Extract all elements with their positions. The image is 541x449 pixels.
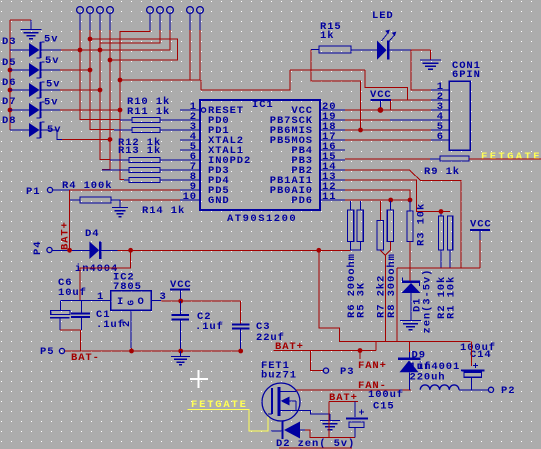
- op-amp IC1 AT90S1200: [180, 99, 345, 225]
- wire P1 to pin9: [53, 189, 180, 191]
- resistor R5: [355, 201, 367, 318]
- zener diode D7: [2, 96, 58, 118]
- zener diode D5: [2, 55, 59, 78]
- wire caps to BAT-: [60, 330, 80, 351]
- wire BAT- rail: [65, 351, 241, 364]
- wire bottom edge: [279, 447, 352, 449]
- label BAT+ fan: [275, 341, 304, 353]
- svg-text:AT90S1200: AT90S1200: [227, 213, 297, 225]
- svg-text:I: I: [117, 296, 124, 308]
- pin P3: [323, 366, 354, 378]
- resistor R13: [102, 145, 180, 173]
- wire D6 cathode: [41, 88, 102, 93]
- wire D5 cathode: [41, 68, 92, 73]
- svg-text:BAT+: BAT+: [60, 221, 72, 250]
- svg-text:5v: 5v: [45, 55, 59, 67]
- resistor R4: [62, 180, 120, 203]
- wire D8 cathode: [41, 130, 112, 142]
- wire col200 long run: [120, 30, 201, 90]
- svg-text:5v: 5v: [46, 79, 60, 91]
- wire pin3 rail: [161, 301, 241, 324]
- svg-text:D9: D9: [412, 350, 426, 362]
- wire to CON2: [391, 100, 431, 110]
- ground below R4: [112, 200, 128, 217]
- svg-text:1: 1: [97, 291, 104, 303]
- resistor R1: [446, 216, 458, 319]
- svg-text:VCC: VCC: [470, 219, 492, 231]
- ground FET source: [320, 421, 340, 430]
- header pin x=200: [197, 7, 204, 30]
- svg-text:buz71: buz71: [261, 370, 297, 382]
- wire D7 cathode: [41, 108, 122, 113]
- resistor R8: [386, 201, 398, 318]
- wire pin12 to R3: [345, 190, 410, 200]
- wire col190: [189, 30, 191, 80]
- ground near D3: [10, 20, 42, 39]
- capacitor C2: [172, 301, 224, 353]
- wire R6 R5 bottoms: [351, 242, 361, 251]
- resistor R3: [407, 201, 428, 246]
- wire col100 to R12: [100, 30, 110, 160]
- svg-text:10uf: 10uf: [58, 287, 87, 299]
- svg-text:1k: 1k: [320, 30, 334, 42]
- svg-text:P4: P4: [32, 241, 44, 255]
- svg-text:P3: P3: [340, 366, 354, 378]
- wire anode bus left: [8, 20, 13, 130]
- svg-text:5v: 5v: [44, 97, 58, 109]
- diode D9: [398, 341, 460, 390]
- power VCC left: [170, 279, 192, 303]
- svg-text:6PIN: 6PIN: [452, 69, 481, 81]
- header pin x=80: [77, 7, 84, 30]
- power VCC mid right: [470, 219, 492, 269]
- wire FETGATE yellow: [188, 410, 268, 432]
- wire matrix up jog: [201, 70, 290, 90]
- wire BAT+ down right: [319, 250, 471, 341]
- wire col110 to R13: [102, 30, 112, 170]
- svg-text:R1 10k: R1 10k: [446, 276, 458, 319]
- svg-text:GND: GND: [208, 195, 230, 207]
- wire col170 jog: [169, 30, 171, 50]
- ground top right: [420, 60, 441, 69]
- resistor R15: [311, 21, 351, 53]
- wire D2 anode: [305, 430, 355, 438]
- wire R4 to pin10: [120, 199, 180, 201]
- wire pin13 to R2 R1: [345, 180, 450, 214]
- ground below D1: [400, 321, 421, 330]
- svg-text:P2: P2: [501, 385, 515, 397]
- connector CON1 6PIN: [431, 60, 481, 150]
- svg-text:D7: D7: [2, 96, 16, 108]
- header pin x=160: [157, 7, 164, 30]
- wire D4 to 7805 in: [80, 250, 131, 300]
- wire pin18 to CON5: [345, 129, 431, 131]
- svg-text:G: G: [127, 299, 137, 305]
- pin P2: [488, 385, 515, 397]
- svg-text:FAN+: FAN+: [358, 360, 387, 372]
- pin P1: [26, 186, 53, 198]
- wire pin14 long: [345, 170, 461, 268]
- svg-text:R3 10k: R3 10k: [416, 203, 428, 246]
- svg-text:P5: P5: [40, 346, 54, 358]
- svg-text:P1: P1: [26, 186, 40, 198]
- svg-text:R14 1k: R14 1k: [142, 205, 185, 217]
- header pin x=100: [97, 7, 104, 30]
- label FETGATE left: [191, 399, 248, 411]
- svg-text:D5: D5: [2, 57, 16, 69]
- label FAN-: [358, 380, 387, 392]
- svg-text:in4004: in4004: [75, 263, 118, 275]
- inductor 220uh: [410, 372, 489, 390]
- wire 7805 gnd: [129, 348, 134, 353]
- wire FAN+: [359, 351, 361, 360]
- svg-text:BAT+: BAT+: [275, 341, 304, 353]
- svg-text:R8 300ohm: R8 300ohm: [386, 253, 398, 318]
- zener diode D3: [2, 34, 58, 59]
- wire to P3: [311, 351, 323, 371]
- label BAT+ vertical: [60, 221, 72, 250]
- wire FET source to ground: [296, 411, 330, 421]
- wire BAT+ riser: [69, 190, 71, 250]
- svg-text:C15: C15: [373, 401, 395, 413]
- header pin x=150: [147, 7, 154, 30]
- resistor R14: [124, 178, 185, 218]
- zener diode D8: [2, 115, 61, 138]
- wire pin19 to CON4: [345, 119, 431, 121]
- capacitor C6: [50, 277, 87, 330]
- svg-text:zen(3-5v): zen(3-5v): [422, 269, 434, 334]
- wire R15 left to pin18: [311, 50, 363, 133]
- svg-text:D8: D8: [2, 115, 16, 127]
- wire FET drain FAN-: [296, 390, 411, 392]
- wire BAT+ fan rail: [274, 341, 376, 353]
- wire pin20 VCC rail: [345, 109, 431, 111]
- wire long y70: [290, 70, 408, 100]
- resistor R12: [110, 137, 180, 163]
- label FAN+: [358, 360, 387, 372]
- svg-text:D6: D6: [2, 77, 16, 89]
- svg-text:220uh: 220uh: [410, 372, 446, 384]
- svg-text:IC1: IC1: [252, 99, 274, 111]
- svg-text:.1uf: .1uf: [96, 319, 125, 331]
- header pin x=190: [187, 7, 194, 30]
- origin cross: [190, 370, 208, 388]
- svg-text:10: 10: [183, 191, 197, 203]
- resistor R7: [376, 201, 388, 318]
- resistor R10: [120, 96, 180, 123]
- pin P5: [40, 346, 65, 358]
- wire col160 jog: [100, 30, 160, 43]
- wire pin11 rail: [345, 198, 412, 203]
- resistor R6: [346, 201, 358, 318]
- zener diode D6: [2, 77, 60, 98]
- svg-text:11: 11: [322, 191, 336, 203]
- svg-text:7805: 7805: [113, 281, 142, 293]
- wire D3 cathode: [41, 48, 170, 53]
- svg-text:R11 1k: R11 1k: [127, 106, 170, 118]
- diode D2: [271, 421, 355, 449]
- header pin x=170: [167, 7, 174, 30]
- header pin x=110: [107, 7, 114, 30]
- wire col90 to R11: [88, 30, 114, 130]
- label FETGATE right: [481, 151, 541, 163]
- svg-text:FETGATE: FETGATE: [481, 151, 541, 163]
- svg-text:D2 zen( 5v): D2 zen( 5v): [276, 438, 355, 449]
- wire R7 R8 bottoms: [380, 242, 390, 342]
- svg-text:R9 1k: R9 1k: [424, 166, 460, 178]
- svg-text:R5 3K: R5 3K: [355, 282, 367, 318]
- power VCC above IC: [370, 89, 392, 113]
- pin1 circle on IC1: [201, 108, 205, 112]
- ground on BAT-: [171, 351, 190, 365]
- wire to CON1 pin1: [411, 50, 431, 90]
- wire LED to ground: [411, 50, 430, 60]
- svg-text:O: O: [138, 296, 145, 308]
- svg-text:LED: LED: [372, 10, 394, 22]
- svg-text:5v: 5v: [44, 34, 58, 46]
- capacitor C1: [71, 301, 125, 331]
- zener diode D1: [402, 242, 434, 334]
- wire pin17 to CON6: [345, 139, 431, 141]
- capacitor C14: [460, 341, 496, 390]
- LED: [351, 10, 411, 60]
- resistor R2: [436, 212, 448, 320]
- diode D4: [53, 228, 119, 275]
- svg-text:D4: D4: [85, 228, 99, 240]
- svg-text:BAT+: BAT+: [329, 392, 358, 404]
- svg-text:PD6: PD6: [291, 195, 313, 207]
- svg-text:100uf: 100uf: [368, 389, 404, 401]
- resistor R11: [114, 106, 180, 133]
- svg-text:D3: D3: [2, 36, 16, 48]
- svg-text:BAT-: BAT-: [71, 352, 100, 364]
- op-amp IC2 7805: [61, 272, 167, 349]
- svg-text:.1uf: .1uf: [195, 321, 224, 333]
- pin P4: [32, 241, 52, 255]
- capacitor C3: [232, 321, 285, 353]
- svg-text:R4 100k: R4 100k: [62, 180, 112, 192]
- wire zigzag net: [90, 39, 178, 60]
- svg-text:R13 1k: R13 1k: [118, 145, 161, 157]
- svg-text:C14: C14: [470, 349, 492, 361]
- capacitor C15: [329, 389, 404, 438]
- transistor FET1 buz71: [261, 360, 300, 421]
- wire D4 rail: [118, 248, 351, 253]
- wire R1 R2 bottoms to VCC: [397, 268, 480, 341]
- wire col80 to R10: [80, 30, 120, 120]
- header pin x=90: [87, 7, 94, 30]
- wire col120 to R14: [118, 30, 150, 180]
- svg-text:6: 6: [437, 131, 444, 143]
- resistor R9: [345, 156, 541, 178]
